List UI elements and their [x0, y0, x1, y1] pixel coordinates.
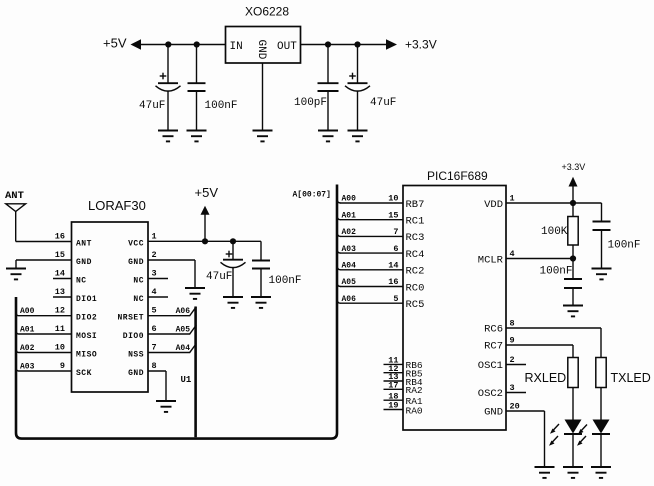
svg-text:XO6228: XO6228	[245, 5, 289, 19]
svg-text:100nF: 100nF	[269, 275, 302, 287]
pin 16 ANT	[55, 232, 92, 249]
pin 3 NC	[133, 269, 168, 286]
capacitor C7 100nF	[564, 259, 582, 306]
capacitor C1 47uF polarized	[156, 45, 181, 131]
ground under C4	[348, 131, 368, 142]
svg-text:GND: GND	[484, 407, 503, 419]
svg-text:ANT: ANT	[76, 240, 92, 249]
node junction MCLR	[570, 255, 576, 261]
svg-text:IN: IN	[230, 41, 243, 53]
svg-text:OSC1: OSC1	[478, 360, 503, 372]
wire VCC rail	[148, 240, 261, 242]
net +3.3V at PIC	[562, 162, 586, 203]
svg-text:7: 7	[393, 227, 398, 237]
ground under C2	[187, 131, 207, 142]
pin 14 RC2 net A04	[337, 261, 424, 278]
pin 6 DIO0 net A05	[123, 324, 197, 341]
svg-text:NRSET: NRSET	[117, 314, 144, 323]
ground under C8	[592, 269, 612, 280]
pin 16 RC0 net A05	[337, 277, 424, 294]
svg-text:RC2: RC2	[406, 266, 425, 278]
svg-text:47uF: 47uF	[206, 271, 232, 283]
pin 8 RC6	[484, 318, 601, 357]
resistor R1 100K	[568, 203, 578, 259]
pin 15 RC1 net A01	[337, 210, 424, 227]
svg-text:6: 6	[152, 324, 157, 334]
svg-text:4: 4	[510, 249, 515, 259]
pin 5 NRSET net A06	[117, 306, 196, 323]
capacitor C2 100nF	[188, 45, 206, 131]
svg-text:VCC: VCC	[128, 240, 144, 249]
ground pin8	[156, 401, 176, 412]
pin 17 RA2	[384, 381, 423, 397]
pin 10 RB7 net A00	[337, 194, 424, 211]
svg-text:8: 8	[152, 361, 157, 371]
node junction VCC/+5V	[202, 238, 208, 244]
ground under D1	[563, 467, 583, 478]
svg-text:GND: GND	[76, 258, 92, 267]
svg-text:A01: A01	[342, 211, 357, 220]
svg-text:16: 16	[388, 277, 398, 287]
ground under C7	[563, 306, 583, 317]
svg-text:SCK: SCK	[76, 369, 92, 378]
ground pin2	[185, 288, 205, 299]
svg-text:13: 13	[55, 287, 65, 297]
ground under C1	[158, 131, 178, 142]
svg-text:8: 8	[510, 318, 515, 328]
svg-text:DIO2: DIO2	[76, 314, 97, 323]
MCU U3 PIC16F689	[403, 169, 506, 430]
svg-text:100nF: 100nF	[540, 266, 573, 278]
svg-text:RC7: RC7	[484, 341, 503, 353]
svg-text:A04: A04	[176, 344, 191, 353]
bus branch vertical	[194, 307, 197, 438]
svg-text:14: 14	[388, 261, 398, 271]
svg-text:GND: GND	[128, 369, 144, 378]
svg-text:DIO0: DIO0	[123, 332, 144, 341]
pin 1 VDD	[484, 194, 601, 211]
svg-text:7: 7	[152, 343, 157, 353]
capacitor C8 100nF	[593, 203, 611, 269]
svg-text:11: 11	[55, 324, 65, 334]
ground under C5	[223, 297, 243, 308]
svg-text:10: 10	[55, 343, 65, 353]
pin 3 OSC2	[478, 383, 526, 400]
node junction VDD	[570, 200, 576, 206]
svg-text:19: 19	[388, 401, 398, 411]
svg-text:100nF: 100nF	[205, 100, 238, 112]
node junction C4	[354, 41, 360, 47]
svg-text:2: 2	[152, 250, 157, 260]
svg-text:RC6: RC6	[484, 324, 503, 336]
wire +5V rail to IN	[140, 44, 226, 46]
pin 15 GND	[16, 250, 92, 269]
svg-text:A06: A06	[342, 295, 357, 304]
svg-text:GND: GND	[128, 258, 144, 267]
ground under C3	[318, 131, 338, 142]
svg-text:20: 20	[510, 401, 520, 411]
svg-text:GND: GND	[255, 40, 267, 60]
svg-text:A03: A03	[20, 363, 35, 372]
ground pin20	[535, 467, 555, 478]
svg-text:9: 9	[60, 361, 65, 371]
resistor R2 RXLED	[525, 358, 579, 388]
net +5V label	[103, 36, 141, 51]
svg-text:A02: A02	[20, 344, 35, 353]
svg-text:1: 1	[152, 232, 157, 242]
svg-text:4: 4	[152, 287, 157, 297]
svg-text:+5V: +5V	[103, 36, 127, 51]
svg-text:A04: A04	[342, 262, 357, 271]
svg-text:RB7: RB7	[406, 199, 425, 211]
svg-text:2: 2	[510, 355, 515, 365]
pin 10 MISO net A02	[16, 343, 97, 360]
ground under regulator	[253, 131, 273, 142]
pin 13 DIO1	[53, 287, 97, 304]
svg-text:+5V: +5V	[195, 185, 219, 200]
svg-text:+3.3V: +3.3V	[405, 38, 437, 52]
svg-text:TXLED: TXLED	[611, 371, 651, 385]
svg-text:3: 3	[510, 383, 515, 393]
LED D1 RX	[549, 388, 582, 468]
svg-text:15: 15	[388, 210, 398, 220]
svg-text:RC3: RC3	[406, 232, 425, 244]
svg-text:MCLR: MCLR	[478, 254, 504, 266]
pin 9 SCK net A03	[16, 361, 92, 378]
pin 2 OSC1	[478, 355, 526, 372]
pin 4 NC	[133, 287, 168, 304]
net +5V arrow at LORA	[195, 185, 219, 241]
capacitor C6 100nF	[252, 241, 270, 297]
pin 20 GND	[484, 401, 544, 467]
svg-text:A03: A03	[342, 245, 357, 254]
svg-text:NC: NC	[133, 295, 144, 304]
svg-text:A05: A05	[176, 325, 191, 334]
svg-text:17: 17	[388, 381, 398, 391]
svg-text:RC5: RC5	[406, 299, 425, 311]
svg-text:10: 10	[388, 194, 398, 204]
pin 11 RB6	[384, 355, 423, 371]
pin 5 RC5 net A06	[337, 294, 424, 311]
pin 9 RC7	[484, 335, 573, 357]
svg-text:9: 9	[510, 335, 515, 345]
pin 2 GND	[128, 250, 195, 288]
pin 19 RA0	[384, 401, 423, 417]
svg-text:14: 14	[55, 269, 65, 279]
svg-text:A00: A00	[342, 195, 357, 204]
pin 6 RC4 net A03	[337, 244, 424, 261]
svg-text:47uF: 47uF	[370, 97, 396, 109]
pin 13 RB4	[384, 372, 423, 388]
capacitor C5 47uF polarized	[221, 241, 246, 297]
svg-text:100K: 100K	[541, 226, 568, 238]
module U1 LORAF30	[72, 198, 149, 392]
svg-text:MOSI: MOSI	[76, 332, 97, 341]
node junction C3	[325, 41, 331, 47]
bus A[00:07] main loop	[16, 185, 337, 439]
svg-text:LORAF30: LORAF30	[88, 198, 146, 213]
pin 18 RA1	[384, 391, 423, 407]
node junction C2	[194, 41, 200, 47]
svg-text:RA0: RA0	[406, 405, 423, 416]
svg-text:A06: A06	[176, 307, 191, 316]
svg-text:3: 3	[152, 269, 157, 279]
regulator U2 XO6228	[226, 5, 301, 64]
svg-text:OSC2: OSC2	[478, 388, 503, 400]
svg-text:A05: A05	[342, 278, 357, 287]
svg-text:ANT: ANT	[5, 190, 24, 202]
svg-text:NSS: NSS	[128, 351, 144, 360]
svg-text:RC1: RC1	[406, 216, 425, 228]
svg-text:100pF: 100pF	[294, 97, 327, 109]
svg-text:RC4: RC4	[406, 249, 425, 261]
ground pin15	[6, 269, 26, 280]
node junction C5	[230, 238, 236, 244]
LED D2 TX	[577, 388, 610, 468]
svg-text:12: 12	[55, 306, 65, 316]
svg-text:A00: A00	[20, 307, 35, 316]
wire regulator GND pin	[262, 63, 264, 131]
svg-text:A02: A02	[342, 228, 357, 237]
wire ANT to pin16	[16, 241, 72, 243]
capacitor C3 100pF	[318, 45, 339, 131]
svg-text:100nF: 100nF	[608, 240, 641, 252]
svg-text:1: 1	[510, 194, 515, 204]
svg-text:NC: NC	[76, 277, 87, 286]
net +3.3V label	[386, 38, 437, 52]
pin 4 MCLR	[478, 249, 573, 266]
antenna ANT	[5, 190, 26, 242]
pin 7 RC3 net A02	[337, 227, 424, 244]
svg-text:47uF: 47uF	[139, 100, 165, 112]
pin 14 NC	[53, 269, 87, 286]
svg-text:A[00:07]: A[00:07]	[293, 190, 331, 199]
pin 7 NSS net A04	[128, 343, 196, 360]
capacitor C4 47uF polarized	[345, 45, 370, 131]
svg-text:RXLED: RXLED	[525, 371, 567, 385]
svg-text:6: 6	[393, 244, 398, 254]
svg-text:MISO: MISO	[76, 351, 97, 360]
svg-text:15: 15	[55, 250, 65, 260]
svg-text:5: 5	[393, 294, 398, 304]
svg-text:PIC16F689: PIC16F689	[427, 169, 488, 183]
pin 12 DIO2 net A00	[16, 306, 97, 323]
svg-text:VDD: VDD	[484, 199, 503, 211]
pin 1 VCC	[128, 232, 157, 249]
svg-text:DIO1: DIO1	[76, 295, 97, 304]
svg-text:OUT: OUT	[277, 41, 297, 53]
node junction C1	[165, 41, 171, 47]
ground under C6	[251, 297, 271, 308]
svg-text:5: 5	[152, 306, 157, 316]
svg-text:RA2: RA2	[406, 385, 423, 396]
svg-text:+3.3V: +3.3V	[562, 162, 586, 172]
svg-text:16: 16	[55, 232, 65, 242]
pin 12 RB5	[384, 364, 423, 380]
ground under D2	[591, 467, 611, 478]
pin 11 MOSI net A01	[16, 324, 97, 341]
svg-text:NC: NC	[133, 277, 144, 286]
wire OUT to +3.3V	[301, 44, 388, 46]
svg-text:U1: U1	[181, 375, 192, 385]
svg-text:RC0: RC0	[406, 282, 425, 294]
svg-text:A01: A01	[20, 326, 35, 335]
pin 8 GND	[128, 361, 166, 401]
resistor R3 TXLED	[596, 358, 651, 388]
